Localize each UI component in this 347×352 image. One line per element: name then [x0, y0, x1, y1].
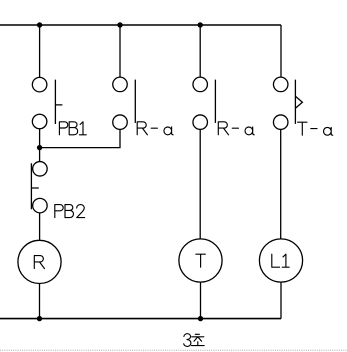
- label PB2: [55, 205, 85, 218]
- timer contact T-a bar with delay chevron: [295, 80, 302, 124]
- page footer dotted rule: [0, 349, 347, 351]
- relay contact R-a (timer branch) bar: [214, 80, 216, 123]
- wire top bus corner to T-a contact: [280, 25, 282, 77]
- node junction top bus / PB1 branch: [37, 22, 42, 27]
- wire PB1 to junction node: [39, 129, 41, 148]
- label T inside coil: [196, 254, 205, 267]
- label T-a (timed contact): [298, 122, 333, 135]
- relay contact R-a (holding) bar: [134, 80, 136, 123]
- wire T-a contact to lamp L1: [280, 130, 282, 240]
- wire top supply bus: [0, 24, 281, 26]
- label R-a (holding contact): [137, 122, 173, 135]
- label caption Hangul cho (seconds unit): [192, 334, 205, 345]
- wire junction to PB2: [39, 148, 41, 162]
- label caption 3 (seconds value): [184, 334, 191, 347]
- relay contact R-a (holding) terminal circles: [113, 77, 128, 129]
- node junction below PB1: [37, 145, 42, 150]
- timer contact T-a terminal circles: [273, 77, 288, 129]
- wire bottom return bus: [0, 318, 281, 320]
- pushbutton PB2 (NC) terminal circles: [33, 162, 48, 213]
- node junction coil R / bottom bus: [37, 316, 42, 321]
- wire top bus to R-a contact 1: [119, 25, 121, 77]
- wire top bus to R-a contact 2: [199, 25, 201, 77]
- wire top bus to PB1: [39, 25, 41, 77]
- node junction coil T / bottom bus: [198, 316, 203, 321]
- lamp L1: [259, 239, 302, 282]
- node junction top bus / R-a branch 1: [117, 22, 122, 27]
- pushbutton PB1 (NO) terminal circles: [32, 77, 47, 128]
- wire self-holding link PB1 junction to R-a column 1: [40, 130, 120, 148]
- pushbutton PB2 actuator bar: [31, 163, 38, 209]
- wire R-a contact 2 to timer coil T: [199, 130, 201, 240]
- label R-a (timer branch contact): [218, 122, 254, 135]
- relay contact R-a (timer branch) terminal circles: [193, 77, 208, 129]
- wire lamp L1 to bottom bus corner: [280, 282, 282, 319]
- label L1 inside lamp: [272, 254, 289, 267]
- timer coil T: [179, 239, 222, 282]
- wire coil R to bottom bus: [39, 284, 41, 319]
- node junction top bus / R-a branch 2: [198, 22, 203, 27]
- wire timer coil T to bottom bus: [200, 282, 202, 319]
- label PB1: [59, 122, 86, 135]
- relay coil R: [18, 240, 61, 283]
- wire PB2 to coil R: [39, 213, 41, 240]
- pushbutton PB1 actuator bar: [55, 80, 62, 124]
- label R inside coil: [34, 256, 44, 269]
